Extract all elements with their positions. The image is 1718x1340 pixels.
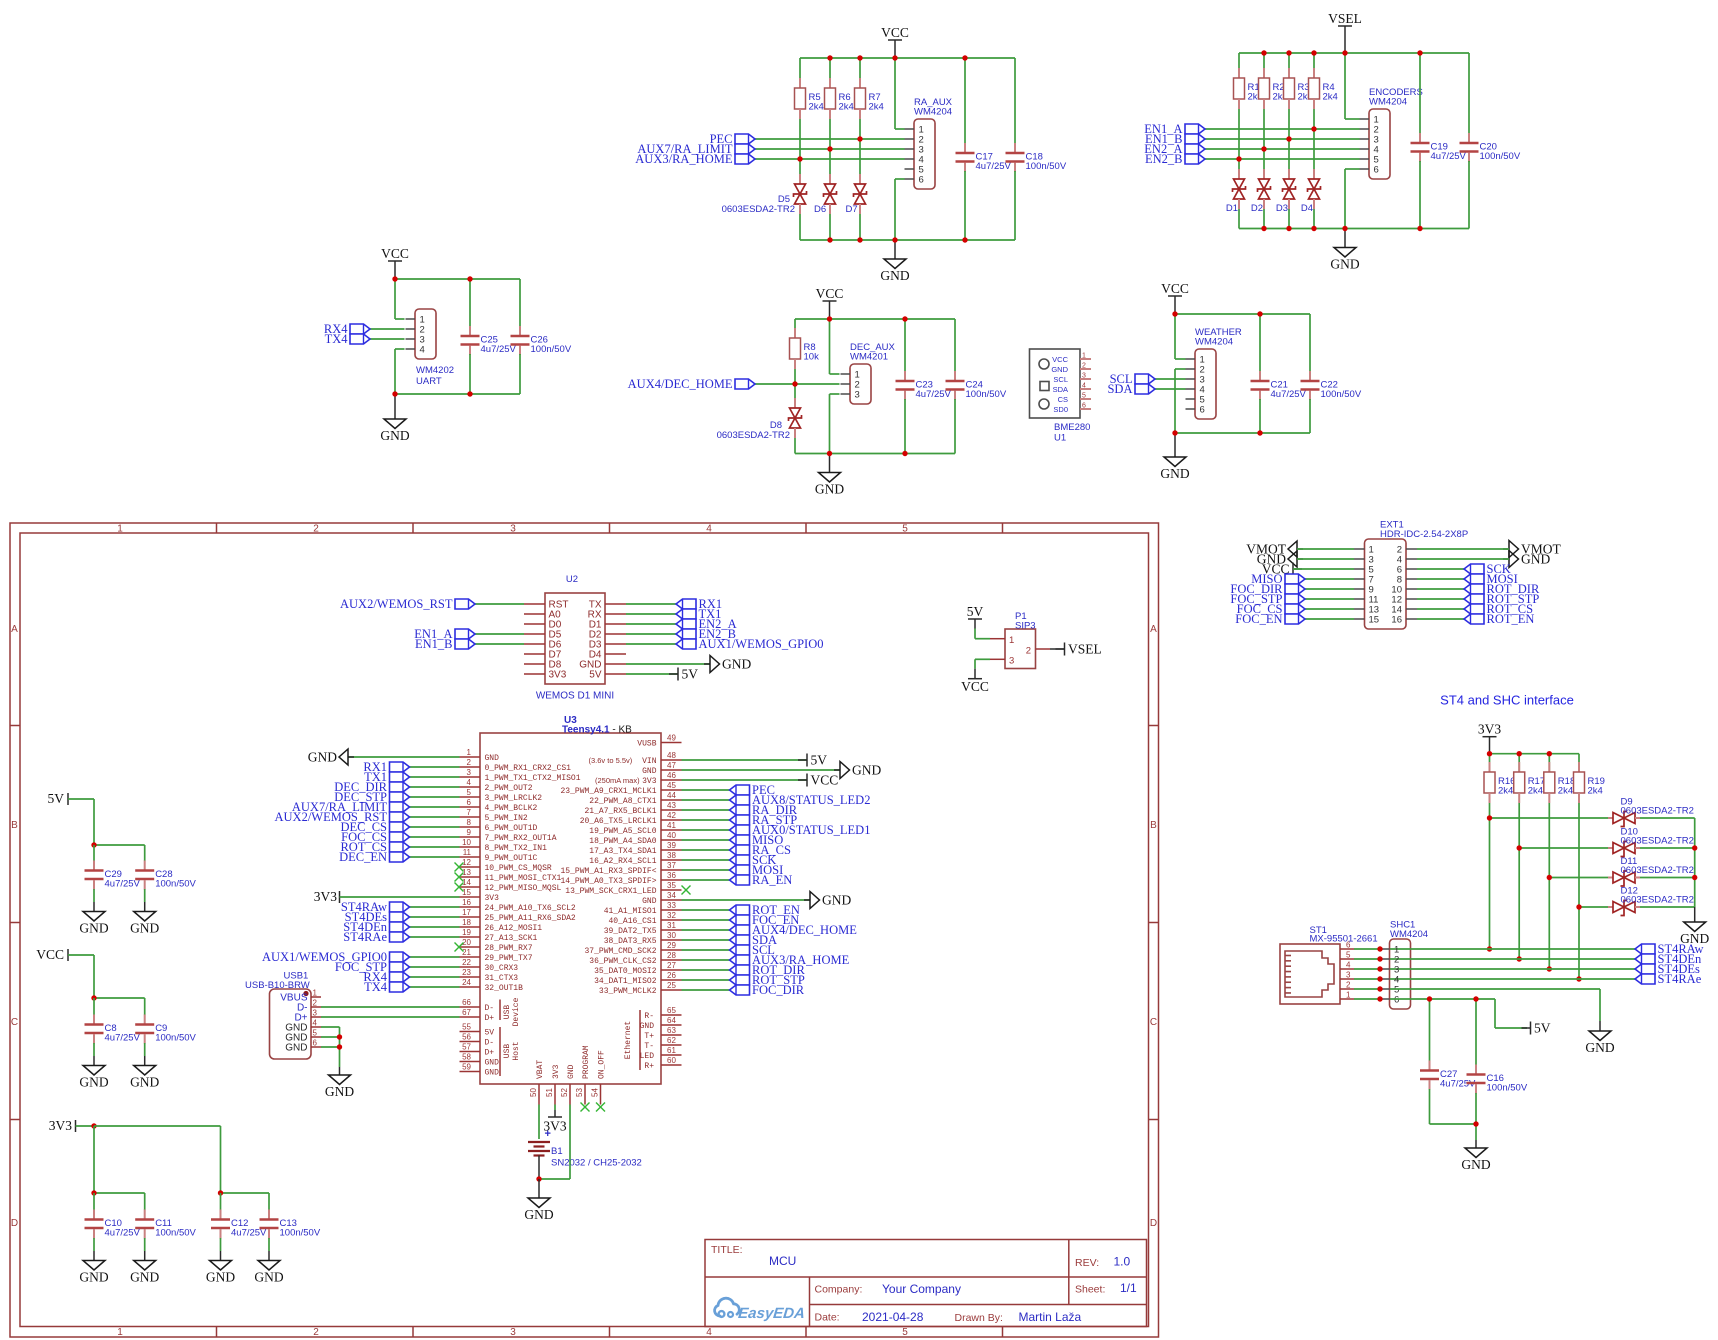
svg-text:VIN: VIN: [642, 757, 657, 766]
connector WEATHER WM4204: [1195, 349, 1216, 419]
junction: [218, 1190, 223, 1195]
junction: [1487, 815, 1492, 820]
net flag MISO: [730, 835, 750, 845]
wire D4 top: [1313, 129, 1315, 169]
svg-text:5V: 5V: [48, 791, 65, 806]
net flag SDA: [730, 935, 750, 945]
svg-text:GND: GND: [880, 268, 909, 283]
svg-text:Martin Laža: Martin Laža: [1019, 1310, 1082, 1324]
net flag AUX3/RA_HOME: [730, 955, 750, 965]
svg-text:(3.6v to 5.5v): (3.6v to 5.5v): [589, 756, 633, 765]
wire DEC_CS (U3): [410, 826, 460, 828]
pin 2 (ST1): [1340, 988, 1354, 990]
port VCC (U3 3V3): [806, 774, 808, 787]
wire GND (U2): [626, 663, 710, 665]
no-connect X pin20: [455, 943, 464, 952]
wire AUX8/STATUS_LED2 (U3): [682, 799, 730, 801]
junction: [91, 1190, 96, 1195]
svg-text:6: 6: [1346, 941, 1351, 950]
svg-text:5: 5: [902, 524, 908, 535]
wire GND rail (UART): [395, 393, 520, 395]
svg-text:8: 8: [467, 818, 472, 827]
svg-text:32_OUT1B: 32_OUT1B: [485, 984, 524, 993]
svg-text:GND: GND: [852, 763, 881, 778]
svg-text:C: C: [1150, 1017, 1157, 1028]
net flag SDA: [1135, 384, 1155, 394]
svg-text:38: 38: [667, 851, 676, 860]
svg-text:ON_OFF: ON_OFF: [598, 1050, 607, 1079]
svg-text:2k4: 2k4: [1588, 786, 1603, 797]
wire TX: [626, 603, 676, 605]
junction: [1311, 126, 1316, 131]
svg-text:GND: GND: [642, 767, 657, 776]
svg-text:VCC: VCC: [811, 773, 839, 788]
connector ST1 MX-95501-2661 (RJ45): [1280, 944, 1340, 1004]
svg-text:GND: GND: [206, 1270, 235, 1285]
pin RST (U2 left): [524, 603, 545, 605]
svg-text:TITLE:: TITLE:: [711, 1244, 743, 1256]
svg-text:EN1_B: EN1_B: [415, 637, 453, 651]
svg-text:45: 45: [667, 781, 676, 790]
wire USB D+: [321, 1016, 460, 1018]
wire GND rail (DEC_AUX): [795, 453, 955, 455]
pin 31 39_DAT2_TX5 (U3 right): [661, 929, 682, 931]
net flag FOC_DIR: [1285, 584, 1305, 594]
pin1 marker dot: [303, 991, 308, 996]
svg-text:D3: D3: [1276, 203, 1288, 214]
svg-text:WEMOS D1 MINI: WEMOS D1 MINI: [536, 691, 614, 702]
pin 46 3V3 (U3 right): [661, 779, 682, 781]
wire R7 bottom: [859, 119, 861, 139]
svg-text:14_PWM_A0_TX3_SPDIF>: 14_PWM_A0_TX3_SPDIF>: [560, 877, 656, 886]
capacitor C16: [1475, 1065, 1477, 1074]
ground (C9): [144, 1056, 146, 1066]
svg-text:FOC_EN: FOC_EN: [1235, 612, 1282, 626]
svg-text:SDA: SDA: [1107, 382, 1132, 396]
wire C18 top: [1014, 58, 1016, 144]
junction: [1342, 226, 1347, 231]
net flag AUX2/WEMOS_RST: [390, 812, 410, 822]
junction: [337, 1034, 342, 1039]
wire TX4: [370, 338, 405, 340]
svg-text:44: 44: [667, 791, 676, 800]
net flag TX1: [676, 609, 696, 619]
svg-text:GND: GND: [79, 921, 108, 936]
pin D6 (U2 left): [524, 643, 545, 645]
wire C19 top: [1419, 53, 1421, 134]
wire to D12: [1579, 906, 1608, 908]
wire 5V: [68, 798, 94, 800]
RA_AUX block: [635, 25, 1067, 283]
wire C16 bottom: [1475, 1093, 1477, 1124]
wire C13 bottom: [268, 1238, 270, 1251]
junction: [797, 156, 802, 161]
net flag ST4DEn: [1635, 954, 1655, 964]
svg-text:17_A3_TX4_SDA1: 17_A3_TX4_SDA1: [589, 847, 656, 856]
wire EN1_B: [1205, 138, 1360, 140]
svg-text:3: 3: [1346, 971, 1351, 980]
junction: [1257, 430, 1262, 435]
port VMOT (left): [1297, 548, 1303, 550]
svg-text:15: 15: [1369, 615, 1380, 626]
svg-text:D7: D7: [846, 204, 858, 215]
wire D6 bottom: [829, 214, 831, 240]
wire 3V3: [76, 1125, 95, 1127]
svg-text:4u7/25V: 4u7/25V: [105, 1228, 141, 1239]
wire R5 bottom: [799, 119, 801, 159]
svg-text:5V: 5V: [967, 604, 984, 619]
pin 67 D+ (U3): [460, 1016, 481, 1018]
svg-text:ST4RAe: ST4RAe: [1658, 972, 1702, 986]
svg-text:2: 2: [313, 524, 319, 535]
svg-text:12_PWM_MISO_MQSL: 12_PWM_MISO_MQSL: [485, 884, 562, 893]
border tick: [10, 1119, 20, 1121]
wire 5V (U2): [626, 673, 678, 675]
junction: [1427, 996, 1432, 1001]
svg-text:REV:: REV:: [1075, 1257, 1099, 1269]
svg-text:GND: GND: [485, 754, 500, 763]
svg-text:27: 27: [667, 961, 676, 970]
pin 40 18_PWM_A4_SDA0 (U3 right): [661, 839, 682, 841]
svg-text:SD0: SD0: [1053, 405, 1068, 414]
wire D8 top: [794, 384, 796, 398]
net flag EN1_B: [455, 639, 475, 649]
junction: [91, 995, 96, 1000]
connector UART WM4202: [415, 309, 436, 359]
port GND (U3 pin47): [834, 769, 840, 771]
svg-text:5V: 5V: [811, 753, 828, 768]
wire C24 top: [954, 319, 956, 372]
svg-text:41: 41: [667, 821, 676, 830]
diode D5: [799, 174, 801, 184]
pin 51 3V3 (U3 bottom): [554, 1084, 556, 1105]
wire EN2_B: [1205, 158, 1360, 160]
wire D7 bottom: [859, 214, 861, 240]
svg-text:30_CRX3: 30_CRX3: [485, 964, 519, 973]
pin D2 (U2 right): [605, 633, 626, 635]
svg-text:VCC: VCC: [881, 25, 909, 40]
svg-text:4: 4: [1082, 383, 1086, 390]
wire SCK: [1417, 568, 1464, 570]
svg-text:GND: GND: [642, 897, 657, 906]
net flag AUX8/STATUS_LED2: [730, 795, 750, 805]
wire C21 top: [1259, 314, 1261, 372]
port VMOT (right): [1503, 548, 1509, 550]
pin 3 D+ (USB1): [311, 1016, 321, 1018]
pin 5V (U2 right): [605, 673, 626, 675]
pin D4 (U2 right): [605, 653, 626, 655]
wire PEC (U3): [682, 789, 730, 791]
pin 34 GND (U3 right): [661, 899, 682, 901]
no-connect X pin13: [455, 873, 464, 882]
svg-text:18_PWM_A4_SDA0: 18_PWM_A4_SDA0: [589, 837, 656, 846]
wire pin6 to GND rail: [894, 179, 896, 240]
wire C23 bottom: [904, 399, 906, 454]
battery B1 block: [524, 1105, 641, 1223]
resistor R5: [799, 78, 801, 88]
wire FOC_EN (U3): [682, 919, 730, 921]
net flag ROT_DIR: [730, 965, 750, 975]
svg-text:ST4 and SHC interface: ST4 and SHC interface: [1440, 693, 1574, 708]
wire D7 top: [859, 139, 861, 174]
pin 2 GND (BME280): [1080, 368, 1091, 370]
svg-text:0603ESDA2-TR2: 0603ESDA2-TR2: [1621, 865, 1694, 876]
pin 11 9_PWM_OUT1C (U3 left): [460, 856, 481, 858]
ground (UART): [394, 394, 396, 419]
border tick: [216, 523, 218, 533]
pin TX (U2 right): [605, 603, 626, 605]
VCC decoupling caps block: [36, 947, 196, 1090]
wire RX: [626, 613, 676, 615]
wire DEC_EN (U3): [410, 856, 460, 858]
wire pin3: [830, 393, 840, 395]
svg-text:0_PWM_RX1_CRX2_CS1: 0_PWM_RX1_CRX2_CS1: [485, 764, 572, 773]
svg-text:16: 16: [1391, 615, 1402, 626]
svg-text:0603ESDA2-TR2: 0603ESDA2-TR2: [1621, 836, 1694, 847]
pin 5 (ST1): [1340, 958, 1354, 960]
capacitor C19: [1419, 133, 1421, 142]
svg-text:VSEL: VSEL: [1068, 642, 1102, 657]
svg-text:5V: 5V: [1534, 1021, 1551, 1036]
svg-text:100n/50V: 100n/50V: [531, 344, 572, 355]
wire C22 top: [1309, 314, 1311, 372]
pin 32 40_A16_CS1 (U3 right): [661, 919, 682, 921]
wire D5 top: [799, 159, 801, 174]
svg-text:6_PWM_OUT1D: 6_PWM_OUT1D: [485, 824, 538, 833]
border tick: [10, 725, 20, 727]
net flag FOC_EN: [1285, 614, 1305, 624]
pin D3 (U2 right): [605, 643, 626, 645]
wire C23 top: [904, 319, 906, 372]
net flag FOC_EN: [730, 915, 750, 925]
wire pin1 drop: [394, 279, 396, 319]
ground (WEATHER): [1174, 433, 1176, 457]
svg-text:62: 62: [667, 1036, 676, 1045]
junction: [1517, 845, 1522, 850]
junction: [1261, 146, 1266, 151]
wire ST4RAw (U3): [410, 906, 460, 908]
svg-text:UART: UART: [416, 376, 442, 387]
resistor R8: [794, 328, 796, 338]
resistor R19: [1578, 762, 1580, 772]
junction: [902, 316, 907, 321]
net flag RX1: [390, 762, 410, 772]
pin 3 SCL (BME280): [1080, 378, 1091, 380]
connector USB1 USB-B10-BRW: [270, 989, 312, 1059]
svg-text:6: 6: [1374, 165, 1379, 176]
wire battery to GND: [539, 1178, 570, 1180]
svg-text:5V: 5V: [682, 667, 699, 682]
svg-text:26_A12_MOSI1: 26_A12_MOSI1: [485, 924, 543, 933]
wire diode row to SHC row: [1548, 878, 1550, 970]
no-connect X pin14: [455, 883, 464, 892]
wire R5 top: [799, 58, 801, 88]
junction: [1473, 1121, 1478, 1126]
wire FOC_STP (U3): [410, 966, 460, 968]
resistor R1: [1238, 68, 1240, 78]
pin 5 CS (BME280): [1080, 398, 1091, 400]
net flag SCL: [730, 945, 750, 955]
ground (ESD diodes): [1694, 907, 1696, 922]
USB1 connector block: [245, 971, 460, 1100]
pin 42 20_A6_TX5_LRCLK1 (U3 right): [661, 819, 682, 821]
wire pin1: [1345, 118, 1360, 120]
pin 60 R+ (U3 Ethernet): [661, 1064, 682, 1066]
svg-text:1/1: 1/1: [1120, 1281, 1137, 1295]
wire R1 bottom: [1238, 109, 1240, 159]
svg-text:2021-04-28: 2021-04-28: [862, 1310, 924, 1324]
wire SCL: [1155, 378, 1186, 380]
wire down to C10: [93, 1126, 95, 1193]
wire GND pin52 down: [569, 1105, 571, 1180]
svg-text:SN2032 / CH25-2032: SN2032 / CH25-2032: [551, 1158, 642, 1169]
wire RA_CS (U3): [682, 849, 730, 851]
svg-text:BME280: BME280: [1054, 422, 1090, 433]
wire D1 top: [1238, 159, 1240, 169]
pin 9 7_PWM_RX2_OUT1A (U3 left): [460, 836, 481, 838]
wire R16 top: [1489, 754, 1491, 772]
pin 56 D- (U3 USB host): [460, 1041, 481, 1043]
wire pin2 to VSEL: [1050, 648, 1065, 650]
junction: [1261, 226, 1266, 231]
resistor R16: [1489, 762, 1491, 772]
svg-text:Company:: Company:: [815, 1284, 863, 1296]
svg-text:56: 56: [462, 1033, 471, 1042]
wire R4 top: [1313, 53, 1315, 78]
svg-text:GND: GND: [79, 1075, 108, 1090]
junction: [857, 55, 862, 60]
pin 47 GND (U3 right): [661, 769, 682, 771]
svg-text:50: 50: [529, 1088, 538, 1097]
svg-text:HDR-IDC-2.54-2X8P: HDR-IDC-2.54-2X8P: [1380, 529, 1468, 540]
svg-text:DEC_EN: DEC_EN: [339, 850, 387, 864]
svg-text:9: 9: [467, 828, 472, 837]
wire VSEL to pin1: [1344, 53, 1346, 119]
svg-text:D-: D-: [485, 1004, 495, 1013]
pin 4 2_PWM_OUT2 (U3 left): [460, 786, 481, 788]
connector SHC1 WM4204: [1390, 939, 1411, 1009]
junction: [1473, 996, 1478, 1001]
capacitor C10: [93, 1210, 95, 1219]
svg-text:22_PWM_A8_CTX1: 22_PWM_A8_CTX1: [589, 797, 656, 806]
port GND (right): [1503, 558, 1509, 560]
svg-text:51: 51: [545, 1088, 554, 1097]
net flag FOC_CS: [1285, 604, 1305, 614]
wire pin1 drop: [829, 319, 831, 374]
wire FOC_CS: [1305, 608, 1354, 610]
wire 3V3 across: [94, 1125, 221, 1127]
net flag ST4RAe: [1635, 974, 1655, 984]
wire MOSI (U3): [682, 869, 730, 871]
svg-text:LED: LED: [640, 1052, 655, 1061]
net flag EN2_A: [676, 619, 696, 629]
svg-text:D: D: [1150, 1218, 1157, 1229]
junction: [467, 276, 472, 281]
svg-text:63: 63: [667, 1026, 676, 1035]
svg-text:1: 1: [1009, 635, 1014, 646]
pin 63 T+ (U3 Ethernet): [661, 1034, 682, 1036]
svg-text:EasyEDA: EasyEDA: [737, 1305, 805, 1322]
EasyEDA logo: [715, 1298, 806, 1322]
net flag AUX4/DEC_HOME: [730, 925, 750, 935]
wire C21 bottom: [1259, 399, 1261, 433]
3V3 decoupling caps block: [49, 1118, 321, 1285]
diode D9: [1608, 817, 1613, 819]
svg-text:16: 16: [462, 898, 471, 907]
wire DEC_STP (U3): [410, 796, 460, 798]
pin 25 33_PWM_MCLK2 (U3 right): [661, 989, 682, 991]
wire MISO (U3): [682, 839, 730, 841]
svg-text:35: 35: [667, 881, 676, 890]
wire AUX4/DEC_HOME (U3): [682, 929, 730, 931]
svg-text:D4: D4: [1301, 203, 1313, 214]
net flag ST4DEs: [390, 912, 410, 922]
junction: [962, 237, 967, 242]
svg-text:42: 42: [667, 811, 676, 820]
ground (B1): [538, 1179, 540, 1198]
wire C10 bottom: [93, 1238, 95, 1251]
wire PEC to pin2: [755, 138, 905, 140]
wire USB GND4: [321, 1026, 340, 1028]
wire USB GND6: [321, 1046, 340, 1048]
wire SHC pin5 down: [1599, 989, 1601, 1021]
svg-text:54: 54: [591, 1088, 600, 1097]
pin 54 ON_OFF (U3 bottom): [600, 1084, 602, 1105]
pin 14 12_PWM_MISO_MQSL (U3 left): [460, 886, 481, 888]
svg-text:GND: GND: [1330, 257, 1359, 272]
svg-text:B1: B1: [551, 1146, 563, 1157]
wire USB D-: [321, 1006, 460, 1008]
svg-text:T+: T+: [644, 1032, 654, 1041]
junction: [1517, 751, 1522, 756]
wire EN2_A: [1205, 148, 1360, 150]
net flag ST4RAe: [390, 932, 410, 942]
pin 58 GND (U3 USB host): [460, 1061, 481, 1063]
wire C20 top: [1468, 53, 1470, 134]
svg-text:22: 22: [462, 958, 471, 967]
svg-text:GND: GND: [325, 1084, 354, 1099]
wire D8 bottom: [794, 438, 796, 454]
pin D7 (U2 left): [524, 653, 545, 655]
svg-text:6: 6: [467, 798, 472, 807]
net flag ST4DEn: [390, 922, 410, 932]
svg-text:53: 53: [575, 1088, 584, 1097]
sheet border frame: [10, 523, 1159, 1338]
wire ST4RAw row: [1390, 948, 1635, 950]
net flag RX1: [676, 599, 696, 609]
svg-text:AUX4/DEC_HOME: AUX4/DEC_HOME: [628, 377, 733, 391]
wire AUX2/WEMOS_RST (U3): [410, 816, 460, 818]
svg-text:VCC: VCC: [381, 246, 409, 261]
svg-text:5V: 5V: [485, 1029, 495, 1038]
svg-text:D6: D6: [814, 204, 826, 215]
capacitor C29: [93, 861, 95, 870]
wire D6: [475, 643, 524, 645]
svg-text:2k4: 2k4: [869, 102, 884, 113]
wire ESD GND rail: [1694, 818, 1696, 907]
pin 48 VIN (U3 right): [661, 759, 682, 761]
wire pin2: [1175, 368, 1186, 370]
svg-text:6: 6: [919, 175, 924, 186]
net flag MOSI: [1464, 574, 1484, 584]
net flag AUX3/RA_HOME: [735, 154, 755, 164]
no-connect X pin35: [682, 886, 691, 895]
wire FOC_DIR (U3): [682, 989, 730, 991]
svg-text:3: 3: [1082, 373, 1086, 380]
svg-text:0603ESDA2-TR2: 0603ESDA2-TR2: [1621, 895, 1694, 906]
diode D6: [829, 174, 831, 184]
wire RX4: [370, 328, 405, 330]
